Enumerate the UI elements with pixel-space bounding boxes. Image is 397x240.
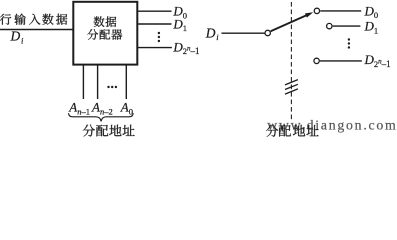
switch arm	[271, 14, 309, 31]
dashed linkage line	[290, 2, 292, 119]
switch arm arrowhead	[305, 12, 313, 17]
horizontal ellipsis (address wires)	[107, 86, 117, 88]
wire: Di to switch pole	[222, 32, 265, 34]
wire: output D0 (left)	[137, 10, 171, 12]
label 分配地址 (left)	[83, 125, 135, 137]
wire: address A0	[125, 65, 127, 100]
wire: address An-1	[82, 65, 84, 100]
wire: serial data input Di	[0, 29, 73, 31]
contact circle D2^n-1	[314, 58, 319, 63]
wire: output D2^n-1 (left)	[137, 47, 172, 49]
mechanical linkage marks	[285, 80, 298, 95]
wire: contact to D0 label	[320, 10, 361, 12]
label 分配地址 (right)	[266, 125, 319, 137]
wire: address An-2	[97, 65, 99, 100]
wire: output D1 (left)	[137, 23, 171, 25]
underbrace	[69, 113, 134, 121]
box label 分配器	[87, 29, 122, 40]
contact circle D0	[314, 8, 319, 13]
wire: contact to D2^n-1 label	[320, 60, 362, 62]
label: serial input data text 行输入数据	[0, 14, 67, 25]
contact circle D1	[327, 23, 332, 28]
vertical ellipsis (right outputs)	[348, 38, 350, 48]
wire: contact to D1 label	[333, 25, 361, 27]
vertical ellipsis (left outputs)	[158, 32, 160, 42]
switch pole contact circle	[265, 30, 270, 35]
demultiplexer box U1	[73, 2, 137, 65]
box label 数据	[94, 16, 117, 27]
